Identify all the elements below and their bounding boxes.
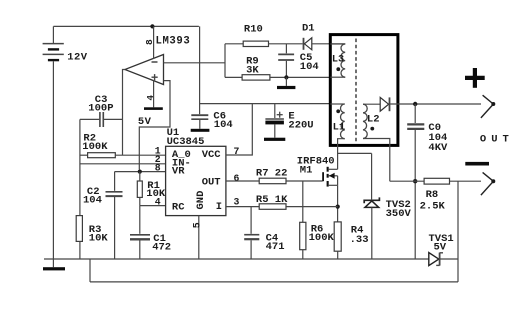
svg-text:GND: GND	[195, 191, 207, 210]
label minus symbol	[465, 162, 489, 166]
transformer T1 box	[330, 35, 398, 146]
svg-text:5V: 5V	[434, 241, 447, 253]
IC U1 UC3845	[166, 146, 226, 215]
wire rail drop to C6	[199, 26, 201, 114]
diode D2 output rectifier	[380, 97, 481, 111]
wire left rail	[52, 61, 54, 259]
svg-text:100K: 100K	[309, 232, 335, 244]
svg-text:M1: M1	[300, 164, 313, 176]
resistor R2	[80, 153, 166, 158]
svg-text:3K: 3K	[246, 65, 259, 77]
svg-text:6: 6	[234, 173, 240, 184]
svg-text:471: 471	[266, 241, 285, 253]
battery B1 12V	[43, 26, 64, 61]
resistor R6	[300, 181, 306, 259]
svg-text:LM393: LM393	[156, 35, 191, 47]
node C0 top junction	[413, 102, 417, 106]
capacitor C4	[244, 207, 259, 259]
svg-text:8: 8	[155, 162, 161, 173]
wire pin8 row	[115, 171, 166, 173]
node L2 phase dot	[370, 127, 374, 131]
svg-text:R7 22: R7 22	[256, 167, 288, 179]
svg-text:5: 5	[192, 222, 203, 228]
wire LM393 output down	[123, 70, 126, 156]
svg-text:2.5K: 2.5K	[420, 200, 446, 212]
resistor R9	[225, 75, 330, 80]
svg-text:VR: VR	[172, 166, 185, 178]
svg-text:104: 104	[83, 195, 102, 207]
wire left return vertical	[89, 259, 91, 282]
resistor R10	[225, 41, 303, 46]
wire pin4 row	[140, 205, 166, 207]
capacitor C6	[191, 115, 210, 132]
node junction on top rail	[150, 24, 154, 28]
wire bottom ground rail	[44, 258, 429, 260]
ground bar under C5	[277, 77, 295, 89]
transformer core dashed line	[355, 39, 357, 144]
wire bottom return line	[90, 281, 458, 283]
svg-text:OUT: OUT	[480, 134, 514, 146]
output plus arrow terminal	[481, 95, 495, 118]
svg-text:4KV: 4KV	[428, 142, 448, 154]
capacitor C3	[80, 112, 123, 127]
svg-text:OUT: OUT	[202, 177, 221, 189]
pin 4 wire LM393	[153, 80, 155, 107]
node minus row junction	[413, 179, 417, 183]
inductor L3 winding	[330, 44, 345, 77]
output minus arrow terminal	[481, 172, 495, 195]
wire source down	[337, 185, 339, 222]
svg-text:220U: 220U	[288, 119, 313, 131]
svg-text:VCC: VCC	[202, 149, 222, 161]
resistor R5	[226, 204, 338, 210]
diode TVS1 zener	[429, 253, 458, 266]
inductor L2 winding	[363, 104, 390, 181]
svg-text:UC3845: UC3845	[167, 136, 205, 148]
svg-text:R10: R10	[244, 24, 263, 36]
ground bar 5V under LM393	[144, 107, 163, 110]
svg-text:8: 8	[144, 39, 155, 45]
svg-text:10K: 10K	[89, 233, 109, 245]
wire top 12V rail	[53, 25, 199, 27]
svg-text:L3: L3	[332, 54, 344, 65]
svg-text:104: 104	[214, 119, 233, 131]
capacitor C0	[407, 104, 424, 259]
resistor R3	[76, 216, 82, 259]
wire drain to TVS2	[338, 152, 372, 154]
pin 5 wire GND	[198, 216, 200, 259]
label plus symbol	[465, 68, 485, 88]
pin 8 wire LM393	[153, 26, 155, 58]
capacitor C1	[130, 206, 150, 259]
ground bar left	[43, 259, 65, 270]
diode TVS2 zener	[364, 153, 379, 259]
svg-text:4: 4	[145, 95, 156, 101]
svg-text:RC: RC	[172, 201, 185, 213]
svg-text:L2: L2	[367, 113, 380, 125]
capacitor C2	[106, 172, 123, 259]
svg-text:472: 472	[152, 242, 171, 254]
wire right return vertical	[457, 181, 459, 282]
resistor R4	[334, 222, 341, 259]
svg-text:L1: L1	[333, 121, 346, 133]
transistor Q1 MOSFET IRF840	[286, 167, 338, 187]
resistor R8	[424, 178, 481, 184]
node L1 phase dot	[336, 109, 340, 113]
diode D1	[304, 38, 346, 50]
svg-text:D1: D1	[302, 23, 315, 35]
svg-text:100P: 100P	[88, 103, 113, 115]
wire minus input row	[164, 62, 226, 64]
node feedback junction	[284, 75, 288, 79]
svg-text:100K: 100K	[82, 141, 108, 153]
svg-text:12V: 12V	[67, 52, 87, 64]
svg-text:R8: R8	[426, 189, 439, 201]
wire VCC rail	[200, 103, 331, 105]
svg-text:.33: .33	[350, 234, 369, 246]
node source junction	[336, 205, 340, 209]
svg-text:R5 1K: R5 1K	[256, 194, 288, 206]
wire C3 left vertical	[79, 119, 81, 215]
wire plus input to VR node	[139, 81, 170, 170]
resistor R1	[137, 172, 142, 206]
svg-text:350V: 350V	[386, 208, 412, 220]
wire pin2 row	[80, 163, 166, 165]
svg-text:3: 3	[234, 197, 240, 208]
capacitor E 220U electrolytic	[264, 104, 285, 141]
wire minus output row	[390, 180, 424, 182]
node L3 phase dot	[336, 67, 340, 71]
capacitor C5	[278, 44, 294, 78]
svg-text:104: 104	[300, 61, 319, 73]
wire feedback left vertical	[224, 44, 226, 78]
node VR junction	[138, 170, 142, 174]
resistor R7	[226, 178, 286, 184]
svg-text:4: 4	[155, 196, 161, 207]
op-amp U2 LM393 comparator	[125, 55, 164, 85]
wire VCC to pin 7	[226, 104, 252, 155]
svg-text:I: I	[216, 201, 222, 213]
inductor L1 winding	[330, 104, 344, 169]
svg-text:5V: 5V	[138, 116, 152, 128]
